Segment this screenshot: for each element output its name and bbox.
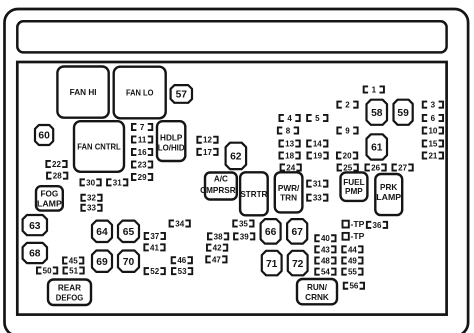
relay 67 [287, 219, 307, 244]
svg-text:-TP: -TP [351, 219, 365, 229]
fuse 33 [81, 204, 101, 213]
fuse 46 [172, 256, 192, 265]
svg-text:40: 40 [321, 234, 330, 243]
fuse 8 [278, 126, 298, 135]
svg-text:50: 50 [43, 266, 52, 275]
fuse 9 [337, 126, 357, 135]
svg-text:FAN HI: FAN HI [70, 88, 97, 97]
svg-text:5: 5 [315, 114, 320, 123]
svg-text:49: 49 [348, 256, 357, 265]
svg-text:44: 44 [348, 245, 357, 254]
fuse 44 [342, 245, 362, 254]
test point TP2 [343, 231, 365, 241]
relay 65 [118, 221, 139, 242]
relay STRTR [240, 172, 268, 215]
svg-text:PWR/: PWR/ [278, 184, 300, 193]
fuse 31 [107, 178, 127, 187]
fuse 36 [367, 221, 387, 230]
fuse 29 [132, 173, 152, 182]
fuse 37 [145, 232, 165, 241]
fuse block outline [17, 62, 446, 315]
svg-text:34: 34 [175, 219, 184, 228]
svg-text:CRNK: CRNK [305, 293, 329, 302]
svg-text:69: 69 [96, 257, 108, 268]
fuse 1 [364, 85, 384, 94]
relay HDLP LO/HID [157, 121, 185, 161]
relay FUEL PMP [341, 172, 368, 201]
fuse 53 [172, 267, 192, 276]
svg-text:37: 37 [150, 232, 159, 241]
svg-text:55: 55 [348, 268, 357, 277]
svg-text:33: 33 [87, 204, 96, 213]
svg-text:64: 64 [96, 227, 108, 238]
svg-text:8: 8 [286, 126, 291, 135]
fuse 7 [132, 123, 152, 132]
svg-text:62: 62 [230, 152, 242, 163]
svg-text:CMPRSR: CMPRSR [200, 186, 236, 195]
relay 58 [367, 100, 388, 125]
svg-text:LO/HID: LO/HID [158, 143, 185, 152]
fuse 43 [315, 245, 335, 254]
relay 61 [367, 134, 388, 159]
svg-text:53: 53 [178, 267, 187, 276]
svg-text:65: 65 [123, 227, 135, 238]
svg-text:38: 38 [214, 232, 223, 241]
fuse 4 [279, 114, 299, 123]
fuse 22 [46, 160, 66, 169]
svg-text:20: 20 [343, 151, 352, 160]
fuse 35 [233, 219, 253, 228]
svg-text:LAMP: LAMP [376, 193, 401, 202]
svg-text:PRK: PRK [380, 183, 397, 192]
svg-text:36: 36 [373, 221, 382, 230]
svg-text:45: 45 [69, 256, 78, 265]
svg-text:12: 12 [203, 136, 212, 145]
fuse 25 [338, 163, 358, 172]
svg-text:29: 29 [138, 173, 147, 182]
svg-text:67: 67 [291, 227, 303, 238]
top label bar [17, 21, 446, 52]
svg-text:66: 66 [265, 227, 277, 238]
fuse 21 [423, 151, 443, 160]
svg-text:9: 9 [345, 126, 350, 135]
svg-text:11: 11 [138, 135, 147, 144]
fuse 47 [206, 255, 226, 264]
svg-text:58: 58 [371, 108, 383, 119]
fuse 40 [315, 234, 335, 243]
fuse 56 [344, 282, 364, 291]
fuse 49 [342, 256, 362, 265]
svg-text:16: 16 [138, 148, 147, 157]
fuse 13 [279, 139, 299, 148]
svg-text:LAMP: LAMP [37, 200, 62, 209]
fuse 12 [197, 136, 217, 145]
svg-text:68: 68 [29, 249, 41, 260]
relay PWR/TRN [275, 172, 303, 212]
relay 57 [171, 85, 192, 103]
svg-text:28: 28 [53, 172, 62, 181]
svg-text:33: 33 [313, 194, 322, 203]
svg-text:PMP: PMP [345, 187, 363, 196]
fuse 26 [365, 163, 385, 172]
fuse 54 [315, 268, 335, 277]
svg-text:7: 7 [140, 123, 145, 132]
svg-text:TRN: TRN [280, 193, 297, 202]
relay FAN LO [114, 67, 166, 119]
fuse 38 [208, 232, 228, 241]
relay 62 [226, 143, 247, 169]
fuse 55 [342, 268, 362, 277]
fuse 34 [170, 219, 190, 228]
fuse 28 [47, 172, 67, 181]
relay 66 [261, 219, 281, 244]
fuse 5 [307, 114, 327, 123]
relay 70 [118, 251, 139, 272]
svg-text:RUN/: RUN/ [307, 283, 328, 292]
svg-text:2: 2 [345, 101, 350, 110]
svg-text:63: 63 [29, 221, 41, 232]
svg-text:REAR: REAR [58, 283, 81, 292]
svg-text:54: 54 [321, 268, 330, 277]
fuse 3 [423, 101, 443, 110]
fuse 33 [307, 194, 327, 203]
svg-text:70: 70 [123, 257, 135, 268]
svg-text:23: 23 [138, 160, 147, 169]
svg-text:19: 19 [313, 151, 322, 160]
fuse 23 [132, 160, 152, 169]
svg-text:FAN LO: FAN LO [126, 89, 154, 98]
svg-text:HDLP: HDLP [160, 133, 183, 142]
svg-text:10: 10 [428, 126, 437, 135]
relay 68 [23, 243, 47, 263]
fuse 32 [81, 194, 101, 203]
svg-text:14: 14 [313, 139, 322, 148]
svg-text:72: 72 [292, 259, 304, 270]
fuse 30 [80, 178, 100, 187]
svg-text:18: 18 [285, 151, 294, 160]
svg-text:46: 46 [177, 256, 186, 265]
fuse 52 [145, 267, 165, 276]
fuse 20 [337, 151, 357, 160]
relay FAN CNTRL [74, 121, 124, 172]
relay 63 [23, 215, 47, 235]
fuse 24 [281, 163, 301, 172]
svg-text:FUEL: FUEL [343, 178, 364, 187]
relay 60 [35, 125, 53, 145]
fuse 39 [234, 232, 254, 241]
svg-text:57: 57 [176, 90, 188, 101]
relay FOG LAMP [36, 186, 63, 210]
fuse 51 [63, 266, 83, 275]
test point TP1 [343, 219, 365, 229]
svg-text:24: 24 [286, 163, 295, 172]
svg-text:26: 26 [371, 163, 380, 172]
fuse 16 [132, 148, 152, 157]
svg-text:15: 15 [428, 139, 437, 148]
fuse 50 [37, 266, 57, 275]
fuse 41 [144, 243, 164, 252]
svg-text:-TP: -TP [351, 231, 365, 241]
svg-text:31: 31 [313, 180, 322, 189]
svg-text:30: 30 [86, 178, 95, 187]
svg-text:52: 52 [150, 267, 159, 276]
svg-text:48: 48 [321, 256, 330, 265]
fuse 42 [207, 244, 227, 253]
fuse 48 [315, 256, 335, 265]
fuse 11 [132, 135, 152, 144]
fuse 6 [423, 114, 443, 123]
svg-text:31: 31 [113, 178, 122, 187]
relay PRK LAMP [375, 174, 402, 215]
relay FAN HI [57, 67, 108, 118]
fuse 27 [392, 163, 412, 172]
svg-text:56: 56 [349, 282, 358, 291]
svg-text:60: 60 [38, 131, 50, 142]
svg-text:47: 47 [212, 255, 221, 264]
svg-text:61: 61 [371, 143, 383, 154]
svg-text:4: 4 [287, 114, 292, 123]
svg-text:25: 25 [343, 163, 352, 172]
svg-text:42: 42 [213, 244, 222, 253]
relay 69 [92, 251, 112, 272]
svg-text:A/C: A/C [214, 174, 228, 183]
relay 59 [394, 100, 413, 125]
svg-text:41: 41 [150, 243, 159, 252]
fuse 31 [307, 180, 327, 189]
svg-text:43: 43 [321, 245, 330, 254]
svg-text:FOG: FOG [41, 190, 59, 199]
svg-text:FAN CNTRL: FAN CNTRL [77, 143, 121, 152]
svg-text:59: 59 [397, 108, 409, 119]
svg-text:13: 13 [285, 139, 294, 148]
fuse 18 [279, 151, 299, 160]
svg-text:DEFOG: DEFOG [56, 293, 84, 302]
svg-text:6: 6 [431, 114, 436, 123]
fuse 17 [197, 148, 217, 157]
fuse 10 [423, 126, 443, 135]
svg-text:35: 35 [239, 219, 248, 228]
relay A/C CMPRSR [200, 173, 237, 200]
fuse 14 [307, 139, 327, 148]
svg-text:STRTR: STRTR [240, 190, 267, 199]
svg-text:1: 1 [372, 85, 377, 94]
fuse 15 [423, 139, 443, 148]
fuse 45 [63, 256, 83, 265]
svg-text:32: 32 [87, 194, 96, 203]
svg-text:39: 39 [240, 232, 249, 241]
relay REAR DEFOG [48, 280, 91, 306]
svg-text:27: 27 [398, 163, 407, 172]
svg-text:71: 71 [266, 259, 278, 270]
fuse 2 [337, 101, 357, 110]
svg-text:51: 51 [69, 266, 78, 275]
relay RUN/CRNK [297, 279, 337, 304]
svg-text:21: 21 [428, 151, 437, 160]
fuse 19 [307, 151, 327, 160]
svg-text:3: 3 [431, 101, 436, 110]
relay 64 [92, 221, 112, 242]
relay 72 [288, 251, 308, 275]
svg-text:17: 17 [203, 148, 212, 157]
svg-text:22: 22 [52, 160, 61, 169]
relay 71 [262, 251, 282, 275]
